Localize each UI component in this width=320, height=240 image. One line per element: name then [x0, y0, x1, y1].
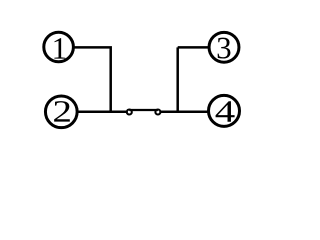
switch bar (closed lever)	[129, 109, 158, 111]
wire from node 1 right, corner down to bottom bus	[74, 47, 111, 113]
wire from switch right terminal to node 4	[161, 110, 209, 113]
node 4	[209, 95, 240, 126]
node 1	[44, 32, 74, 62]
node 2	[45, 96, 77, 128]
node 3	[209, 32, 239, 62]
wire from node 2 to switch left terminal	[77, 110, 126, 113]
switch left terminal	[127, 110, 132, 115]
wire to node 3	[178, 46, 209, 49]
switch right terminal	[155, 110, 160, 115]
tee vertical wire	[176, 47, 179, 113]
